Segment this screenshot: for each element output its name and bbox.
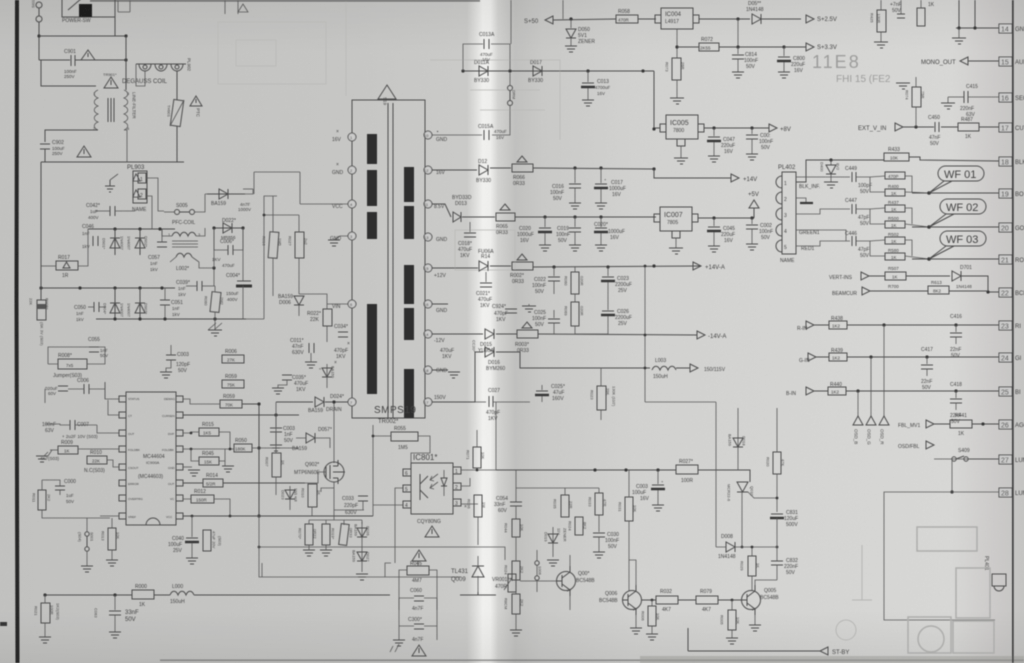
PL402 pin 4	[776, 224, 782, 236]
arrow S+3.3V	[806, 43, 814, 51]
wire row18 to box	[909, 157, 999, 161]
degauss pin 1	[139, 64, 151, 71]
connector box 20 GO	[999, 223, 1012, 232]
resistor R024b 8K2 vertical	[575, 517, 583, 535]
wire pin10 row y135	[432, 106, 510, 135]
IC004 pin2 down	[676, 29, 678, 58]
resistor R425 vertical	[877, 10, 886, 32]
ground C415	[947, 97, 949, 103]
degauss connector PL902 bar	[136, 63, 186, 65]
resistor R006 10K vertical	[648, 606, 656, 626]
resistor R012 150R	[191, 495, 214, 503]
arrow -14V-A	[697, 331, 705, 339]
IC801 phototransistor	[420, 474, 428, 500]
wire pin2 ground	[796, 198, 806, 202]
resistor R005 10K vertical	[728, 610, 736, 630]
node 16V rail	[573, 166, 576, 169]
connector box 17 CUT	[999, 123, 1012, 132]
ghost bleed rectangles bottom right	[908, 527, 994, 653]
ground R045	[222, 466, 234, 472]
wire VREF left	[100, 515, 119, 517]
wire IC005 in	[654, 71, 660, 128]
ghost bleed rect top middle	[218, 0, 560, 270]
capacitor C020 1000uF 16V	[544, 217, 546, 227]
resistor R018 1K vertical	[308, 484, 317, 507]
resistor R014 5/2R	[203, 479, 223, 487]
connector PL402	[782, 172, 796, 254]
wire CT left	[108, 400, 119, 415]
wire standby rail up	[495, 402, 497, 470]
wire G row	[816, 356, 999, 358]
transformer TR002 SMPS19 outline	[352, 100, 425, 418]
wire DEMAG to R059	[183, 399, 220, 404]
wire C447 to boxes	[856, 208, 929, 227]
node mid bus	[39, 286, 42, 289]
power switch lever	[68, 0, 82, 10]
capacitor C034	[338, 331, 348, 333]
zener D400 8V2	[829, 158, 832, 161]
wire VCC pin4 left	[254, 172, 348, 204]
wire gate	[305, 472, 326, 483]
capacitor C003 1nF 50V	[275, 415, 277, 427]
IC right pin stubs	[176, 396, 183, 519]
ground R0CM	[510, 630, 522, 636]
node +12V rail	[552, 265, 555, 268]
wire GND pin18	[432, 369, 448, 371]
capacitor C446 47pF 50V	[851, 236, 853, 246]
resistor R070 vertical	[305, 524, 313, 545]
arrow G-IN	[808, 353, 816, 361]
startup resistor R021c 2u2 vertical	[295, 232, 304, 258]
IC801 pin 3	[453, 499, 461, 506]
transistor Q005 BC548B	[742, 591, 761, 610]
wire IC005 gnd	[680, 146, 682, 158]
wire R069 to -12V	[574, 294, 576, 302]
node x126	[124, 34, 127, 37]
diode D019 11V ZENER vertical	[552, 527, 554, 557]
resistor R021 100R vertical	[41, 603, 50, 623]
resistor R073 26R vertical	[672, 58, 681, 80]
capacitor C011 47nF 630V	[308, 343, 310, 353]
capacitor C040 100uF 25V	[191, 516, 193, 537]
wire x41 vertical	[40, 162, 42, 300]
capacitor C017 1000uF 16V	[600, 168, 602, 183]
connector box 28 LUM	[999, 488, 1012, 497]
wire FBL row	[934, 423, 999, 425]
transformer primary winding bars left	[367, 134, 377, 164]
wire C004	[242, 228, 244, 281]
wire IC007 gnd	[675, 238, 677, 248]
fuse DRM	[508, 86, 513, 91]
arrow B-IN	[806, 387, 814, 395]
arrow OSD/FBL	[926, 441, 934, 449]
wire IC004 out	[699, 18, 750, 20]
resistor R059 70K	[220, 400, 242, 408]
diode BA159b vertical	[361, 522, 363, 548]
wire PTC down	[176, 126, 178, 162]
ground C016	[569, 203, 581, 209]
capacitor C003b 120pF 50V	[166, 354, 176, 356]
capacitor C039	[196, 281, 198, 291]
transistor Q006 BC548B	[623, 591, 642, 610]
wire Q008 collector	[569, 555, 571, 610]
capacitor C006b	[83, 384, 85, 394]
capacitor 4n7F 1000V	[243, 188, 253, 190]
warning triangle near C901	[81, 50, 95, 60]
transformer secondary winding bars right	[404, 167, 414, 202]
capacitor C054 33nF 60V	[510, 501, 522, 503]
wire standby rail y470	[496, 470, 750, 482]
inductor L002 bottom coil	[176, 253, 192, 257]
resistor R059b 75K	[222, 380, 244, 388]
wire C006	[214, 228, 228, 250]
wire Q005 collector to C832	[755, 580, 777, 585]
capacitor C004 electrolytic	[237, 280, 251, 282]
capacitor C902	[40, 143, 50, 145]
ground C035	[272, 388, 284, 394]
wire C003b up	[170, 345, 172, 355]
resistor R022c 22K vertical	[323, 309, 332, 326]
wire feeds box14	[956, 27, 999, 29]
capacitor C417 22nF 50V	[926, 357, 928, 364]
wire row20	[912, 226, 999, 228]
wire cluster top row	[516, 470, 599, 495]
WF 03 callout	[940, 231, 986, 246]
wire degauss left pin down	[136, 64, 145, 86]
wire source down	[321, 482, 364, 520]
resistor R065 0R33	[496, 213, 515, 221]
power switch box	[62, 0, 115, 17]
wire Q010 cathode to D008	[741, 520, 743, 547]
diode D12 BY330	[479, 165, 488, 175]
ground C003	[270, 445, 282, 451]
wire Q008 base	[520, 580, 556, 582]
resistor R033 47R vertical	[595, 493, 603, 515]
ground pin16	[522, 306, 536, 312]
capacitor C020A 1000uF 16V	[600, 217, 602, 227]
capacitor C055	[89, 346, 99, 348]
inductor L000 150uH	[170, 591, 194, 595]
wire R072 to S+3.3V	[677, 46, 784, 48]
wire mid bus y288	[41, 287, 175, 289]
scan mark left bottom	[0, 622, 7, 626]
resistor R045 15K	[199, 457, 219, 465]
connector box 14 GND	[999, 24, 1012, 33]
diode D903 1N4007	[139, 288, 141, 319]
capacitor C013A 470uF 16V	[463, 44, 510, 71]
arrow +14V	[731, 174, 739, 182]
jumper 1006	[535, 561, 539, 565]
ground D400	[824, 182, 838, 188]
resistor R008 jumper	[58, 359, 87, 369]
top edge triangle	[238, 4, 248, 12]
capacitor C080 220uF 16V	[783, 47, 785, 56]
resistor R024 2K2 vertical	[512, 561, 520, 580]
arrow +8V	[769, 124, 777, 132]
capacitor C060 4n7F	[414, 595, 424, 597]
wire ST-BY rail	[688, 628, 820, 651]
page frame line right	[1012, 0, 1014, 663]
wire 8.5V rail y217	[432, 204, 656, 217]
fuse SI01	[36, 2, 42, 8]
capacitor C001 100nF 50V	[751, 128, 753, 134]
resistor R003 0R33	[517, 330, 538, 338]
regulator IC005 7800	[666, 115, 698, 139]
line filter TR901 right coil	[124, 90, 128, 130]
IC MC44604 box	[126, 392, 176, 525]
wire R015 right down	[219, 432, 230, 449]
wire bottom bus y319	[96, 318, 246, 320]
resistor R066 0R33	[512, 164, 533, 172]
resistor R013 vertical	[108, 528, 116, 550]
ground D027	[356, 574, 368, 580]
arrow MONO_OUT	[960, 57, 968, 65]
connector box 25 BI	[999, 387, 1012, 396]
wire B row	[814, 390, 999, 392]
capacitor C006	[227, 245, 229, 255]
arrow BEAMCUR	[862, 287, 870, 295]
connector box 16 SEC	[999, 93, 1012, 102]
wire BEAM row	[870, 290, 988, 292]
capacitor C042	[109, 206, 111, 216]
IC801 LED	[441, 478, 447, 486]
resistor R027 100R	[676, 465, 698, 474]
resistor R058 470R	[616, 15, 638, 23]
PL402 pin 5	[776, 240, 782, 252]
resistor R009 1K	[58, 446, 78, 454]
capacitor C924 470uF 1KV	[505, 308, 517, 310]
diode D013 BYD33D	[453, 212, 461, 222]
resistor R0CM 2K2 vertical	[512, 594, 520, 614]
transformer pin 7 DRAIN	[348, 398, 356, 406]
diode D011A BY330	[479, 66, 488, 76]
resistor R011 2K2 vertical	[38, 490, 46, 510]
wire caps row	[45, 382, 105, 403]
wire y162	[41, 161, 184, 163]
wire S409 row	[968, 458, 999, 460]
ground R425	[880, 32, 882, 42]
arrow R-IN	[806, 321, 814, 329]
zener D050 5V1	[570, 19, 572, 28]
capacitor C415 220nF 63V	[948, 96, 964, 98]
IC801 pin 4	[403, 501, 411, 508]
capacitor C300 4n7F	[414, 623, 424, 625]
capacitor 020uF 60V	[58, 385, 68, 387]
transformer pin 6 VIN	[348, 300, 356, 308]
wire R008 loop	[48, 347, 105, 364]
IC801 pin 1	[453, 467, 461, 474]
capacitor C832b 220nF 50V	[771, 560, 783, 562]
ground stray	[896, 83, 910, 89]
wire x41 down	[39, 60, 96, 86]
node bridge	[113, 227, 116, 230]
capacitor C015A 470uF 16V	[483, 130, 485, 140]
wire C446 to boxes	[856, 240, 929, 259]
ground pin18	[448, 372, 460, 378]
PTC TH901	[170, 99, 184, 126]
diode D015 YU95A	[485, 329, 494, 339]
wire filter left bottom to C902	[45, 130, 98, 142]
capacitor C814 100nF 50V	[737, 47, 739, 54]
capacitor C016 100nF 50V	[574, 168, 576, 183]
wire GND pin	[183, 466, 192, 468]
resistor R035 22R vertical	[561, 495, 569, 517]
resistor 1K vertical top right	[917, 8, 925, 26]
wire OUT3 left	[97, 425, 119, 433]
wire TL431 bottom rail	[460, 592, 496, 595]
diode D901 1N4007	[114, 229, 116, 255]
resistor R045b 4M7	[407, 566, 429, 575]
top edge stubs left	[118, 0, 130, 12]
resistor R072 2K55	[699, 43, 719, 51]
IC left pin stubs	[119, 396, 126, 519]
resistor R031 10K vertical	[625, 497, 633, 521]
wire PL903 to bridge	[146, 178, 164, 211]
capacitor C025 100nF 50V	[553, 310, 555, 318]
IC801 pin 2	[453, 483, 461, 490]
capacitor C033 220pF 630V	[358, 495, 368, 497]
connector box 26 AGC	[999, 420, 1012, 429]
wire verticals above box14	[958, 0, 960, 28]
PL402 pin 2	[776, 192, 782, 204]
resistor R00B 22K	[37, 300, 46, 320]
grounds source resistors	[303, 550, 315, 556]
IC801 light arrows	[430, 474, 438, 489]
capacitor C447 47pF 50V	[851, 204, 853, 214]
warning triangle bottom	[412, 645, 426, 656]
resistor R010 22K	[87, 456, 107, 464]
resistor R069 B20R vertical	[571, 302, 579, 326]
transformer pin 17 150V	[424, 398, 432, 406]
capacitor C046	[92, 236, 94, 246]
wire -12V rail y334	[432, 334, 697, 335]
wire FOLDBK row	[183, 448, 299, 449]
capacitor C050	[93, 302, 95, 312]
connector box 15 AUD	[999, 57, 1012, 66]
PTC warning triangle	[190, 96, 202, 106]
jumper S001 (S04)	[85, 532, 89, 536]
wire source resistors top	[309, 520, 362, 525]
capacitor C418 22nF 50V	[955, 391, 957, 398]
regulator IC007 7805	[660, 207, 692, 231]
capacitor C019 100nF 50V	[574, 217, 576, 227]
diode D023 1N4148 vertical	[289, 486, 291, 510]
capacitor C023 2200uF 25V	[607, 267, 609, 276]
resistor R036 vertical	[474, 495, 482, 517]
ground R009	[36, 456, 48, 462]
capacitor C025B 47uF 160V	[541, 385, 543, 390]
PL903 pin 1	[133, 174, 140, 181]
arrow S+5V	[545, 16, 553, 24]
resistor R055 1M5	[391, 432, 418, 441]
resistor R015 1K5	[199, 428, 219, 436]
transformer pin 10 GND	[424, 131, 432, 139]
connector box 21 RO	[999, 255, 1012, 264]
optocoupler IC801	[411, 463, 453, 514]
transformer pin 2 GND	[348, 166, 356, 174]
capacitor C007 100nF 63V	[69, 420, 71, 430]
wire C007	[45, 424, 97, 425]
diode D016 BYM260	[485, 347, 494, 357]
wire degauss right pin to PTC	[176, 71, 178, 100]
wire OUT row	[183, 482, 305, 484]
resistor R433 10K	[884, 153, 909, 161]
wire pin1 up to row18	[796, 160, 884, 182]
transistor Q008 BC548B	[557, 572, 576, 591]
scan top edge line	[90, 0, 480, 2]
wire feedback y547	[259, 547, 505, 560]
connector box 22 BCL	[999, 288, 1012, 297]
transformer pin 16 GND	[424, 300, 432, 308]
diode D022 MR856	[213, 227, 243, 229]
wire pin5 left	[395, 488, 403, 563]
wire y268	[199, 262, 214, 286]
wire GND pin16	[432, 303, 448, 305]
diode D008 1N4148	[726, 542, 735, 552]
wire R059 right vertical bus	[242, 404, 259, 516]
wire C042	[115, 210, 135, 212]
resistor R002 0R33	[512, 262, 533, 270]
resistor R017	[56, 261, 78, 270]
wire bridge top y229	[88, 228, 175, 230]
wire IC005 out	[704, 127, 769, 129]
thyristor Q010 MCR22-6	[737, 482, 748, 492]
resistor R050 180K	[234, 444, 252, 452]
ground C047	[708, 156, 720, 162]
ground C003c	[652, 505, 664, 511]
IC801 pin 5	[403, 485, 411, 492]
wire down from D005 line	[737, 19, 739, 47]
capacitor C416 22nF 50V	[955, 325, 957, 332]
connector box 24 GI	[999, 353, 1012, 362]
resistor R007 1K vertical	[272, 453, 281, 477]
wire y36	[39, 35, 126, 37]
ground C040	[186, 558, 198, 564]
resistor R019 slanted	[339, 524, 349, 546]
wire STATUS up	[105, 382, 119, 399]
wire pin1 right	[461, 469, 496, 471]
wire +12V rail y269	[432, 266, 700, 268]
wire box28 route	[884, 492, 999, 620]
connector box 18 BLK	[999, 157, 1012, 166]
wire Q006 collector up	[629, 560, 636, 585]
capacitor C013 4700uF 16V	[587, 71, 589, 82]
wire PFC vertical	[162, 229, 172, 236]
pin name ticks	[128, 397, 176, 519]
capacitor C057	[157, 241, 167, 243]
startup resistor R016 1M5 vertical	[268, 232, 279, 259]
transformer pin 11 8.5V	[424, 200, 432, 208]
wire VC row	[183, 499, 230, 516]
transformer pin 13 GND	[424, 233, 432, 241]
ground R006	[646, 634, 658, 640]
node IC004 out	[736, 17, 739, 20]
ground C001	[746, 154, 758, 160]
ground under box14 wire	[958, 28, 960, 38]
warning triangle IC801	[425, 526, 439, 537]
ground C003b	[160, 372, 172, 378]
line filter core	[107, 98, 109, 122]
capacitor C021 470uF 1KV	[485, 272, 487, 282]
diode D005 1N4148	[752, 14, 761, 24]
diode D006 BA159 vertical	[294, 296, 304, 305]
WF 02 callout	[940, 199, 986, 214]
node fuse bus	[37, 34, 40, 37]
wire +B feed right	[246, 196, 299, 319]
wire R017	[41, 265, 56, 267]
capacitor C450 47nF 50V	[934, 122, 936, 132]
wire filter right bottom down	[124, 130, 127, 162]
